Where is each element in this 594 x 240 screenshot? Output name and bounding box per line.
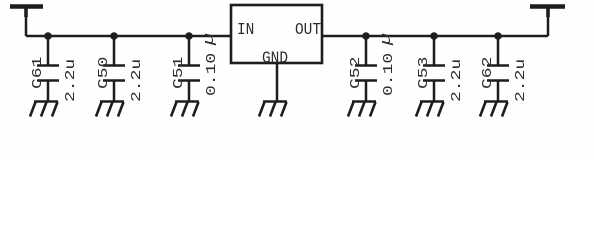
svg-text:IN: IN <box>237 20 254 39</box>
power symbol VCC right <box>530 7 565 37</box>
svg-text:2.2u: 2.2u <box>129 59 144 102</box>
svg-text:C62: C62 <box>480 57 495 89</box>
svg-text:2.2u: 2.2u <box>63 59 78 102</box>
regulator U1 box <box>231 5 322 68</box>
svg-text:C50: C50 <box>96 57 111 89</box>
capacitor C50 <box>96 36 144 102</box>
node junction C62 <box>494 32 502 40</box>
svg-text:0.10: 0.10 <box>204 53 219 96</box>
svg-text:C53: C53 <box>416 57 431 89</box>
ground (C53) <box>416 102 444 117</box>
capacitor C62 <box>480 36 528 102</box>
power symbol VCC left <box>10 7 43 37</box>
svg-text:2.2u: 2.2u <box>513 59 528 102</box>
svg-text:2.2u: 2.2u <box>449 59 464 102</box>
ground (C50) <box>96 102 124 117</box>
node junction C53 <box>430 32 438 40</box>
ground (C52) <box>348 102 376 117</box>
ground (regulator GND) <box>259 102 287 117</box>
svg-text:OUT: OUT <box>295 20 321 39</box>
node junction C52 <box>362 32 370 40</box>
capacitor C52 <box>348 33 396 101</box>
node junction C50 <box>110 32 118 40</box>
wire right rail (regulator out) <box>322 35 548 38</box>
svg-text:C51: C51 <box>171 57 186 89</box>
svg-text:0.10: 0.10 <box>381 53 396 96</box>
svg-text:C52: C52 <box>348 57 363 89</box>
svg-text:µ: µ <box>201 33 218 47</box>
svg-text:µ: µ <box>378 33 395 47</box>
node junction C51 <box>185 32 193 40</box>
ground (C62) <box>480 102 508 117</box>
ground (C61) <box>30 102 58 117</box>
ground (C51) <box>171 102 199 117</box>
svg-text:C61: C61 <box>30 57 45 89</box>
capacitor C61 <box>30 36 78 102</box>
capacitor C53 <box>416 36 464 102</box>
wire regulator GND pin <box>276 63 279 101</box>
capacitor C51 <box>171 33 219 101</box>
wire left rail (VCC in) <box>26 35 231 38</box>
svg-text:GND: GND <box>262 48 288 67</box>
node junction C61 <box>44 32 52 40</box>
